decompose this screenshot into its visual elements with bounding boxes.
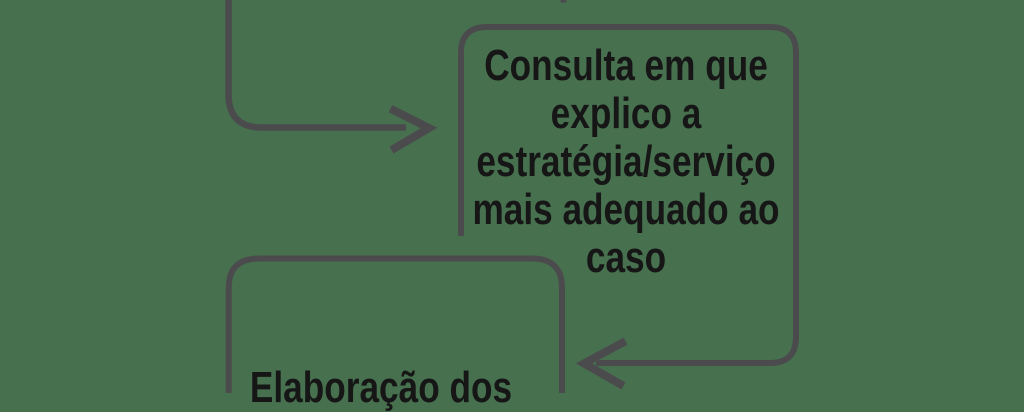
stub of arrowhead at top centre (clipped) xyxy=(561,0,567,3)
box U1: Consulta rounded rectangle (bottom edge occluded) + outgoing elbow xyxy=(461,27,796,363)
label: Consulta em que explico a estrategia/servico mais adequado ao caso xyxy=(466,42,786,282)
arrowhead pointing left into Elaboracao box xyxy=(584,343,622,384)
wire: incoming connector elbow from top-left xyxy=(229,0,407,128)
box U2: Elaboracao rounded rectangle (clipped at bottom) xyxy=(229,259,562,400)
arrowhead pointing right into Consulta box xyxy=(394,111,429,149)
label: Elaboracao dos (clipped) xyxy=(221,364,541,412)
